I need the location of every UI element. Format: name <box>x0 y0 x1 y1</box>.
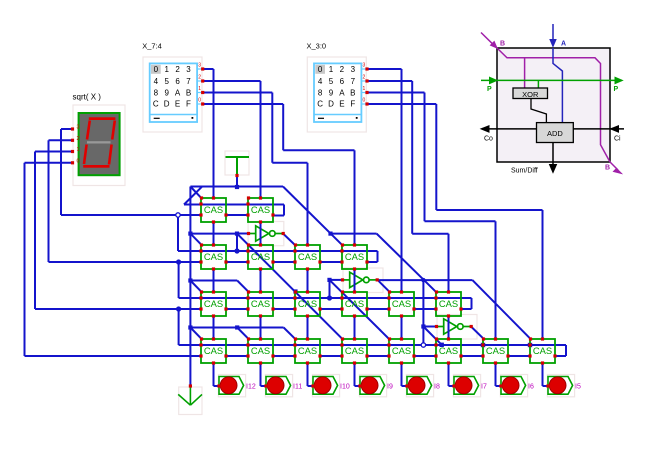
CAS cell row2 c0 <box>201 245 226 269</box>
svg-text:1: 1 <box>198 86 201 92</box>
svg-text:A: A <box>339 88 345 97</box>
wire row2 c1 sum to row3 A <box>260 269 262 292</box>
wire row4 c1-c2 carry link <box>273 355 295 357</box>
wire row4 c6-c7 carry link <box>508 355 530 357</box>
keypad X_3:0 pins <box>361 68 367 70</box>
segment top-left <box>87 121 90 140</box>
wire row3 c0 sum to row4 A <box>213 316 215 339</box>
svg-text:3: 3 <box>363 63 366 69</box>
CAS cell row3 c0 <box>201 292 226 316</box>
junction row3 B-line x329 <box>327 295 332 300</box>
svg-text:ADD: ADD <box>547 129 563 138</box>
inset XOR to ADD path <box>531 99 546 123</box>
svg-text:CAS: CAS <box>298 298 317 309</box>
LED halo I6 <box>500 375 527 397</box>
svg-text:I9: I9 <box>387 383 393 390</box>
7-segment display <box>79 113 120 175</box>
junction new-bit diagonal <box>328 232 332 236</box>
wire branch at diagonal to row3 c5 B <box>331 233 377 235</box>
svg-text:CAS: CAS <box>204 345 223 356</box>
inset B input arrow <box>481 33 495 46</box>
CAS cell row4 c5 <box>436 339 461 363</box>
inset P stub to XOR <box>537 80 539 88</box>
power pin <box>235 174 238 177</box>
wire keypad2 pin2 to row3 c5 A <box>367 80 412 82</box>
svg-text:2: 2 <box>198 75 201 81</box>
wire display pin3 to row1 cell LL <box>61 128 73 130</box>
LED halo I11 <box>265 375 292 397</box>
output LED I9 <box>360 377 385 395</box>
wire inverter U3 output diagonal to row4 c6 B <box>471 327 484 340</box>
keypad X_7:4 divider <box>150 114 197 116</box>
svg-text:A: A <box>175 88 181 97</box>
svg-text:3: 3 <box>351 65 356 74</box>
wire main diagonal J1 to row2c1,row3c2,row4c3 B <box>237 234 343 340</box>
svg-text:XOR: XOR <box>522 90 539 99</box>
junction row4 B-line c5 diag <box>440 343 444 347</box>
keypad X_7:4 dash <box>154 117 160 119</box>
wire row4 c5-c6 carry link <box>461 355 483 357</box>
wire stub to row1 c0 B <box>190 187 201 199</box>
wire branch x178 to row3 B-line <box>178 262 180 298</box>
svg-text:P: P <box>487 86 492 93</box>
wire row3 c0-c1 carry link <box>226 308 248 310</box>
LED halo I10 <box>312 375 339 397</box>
svg-text:3: 3 <box>77 125 80 131</box>
inset Ci arrowhead <box>611 126 619 132</box>
svg-text:CAS: CAS <box>345 251 364 262</box>
wire row3 c5 sum to row4 A <box>448 316 450 339</box>
wire J3 to inverter U3 input <box>423 326 436 328</box>
ground symbol <box>189 386 191 405</box>
svg-text:B: B <box>605 165 610 172</box>
wire row1 c1 sum to row2 A <box>260 222 262 245</box>
wire row3 c4 sum to row4 A <box>401 316 403 339</box>
wire branch x178 row1 feed to row2 B-line <box>177 215 179 251</box>
CAS cell row3 c2 <box>295 292 320 316</box>
inset B path <box>497 48 610 162</box>
inset A input arrow <box>552 24 554 41</box>
wire J2 to inverter U2 input <box>330 279 343 281</box>
svg-text:3: 3 <box>186 65 191 74</box>
svg-text:B: B <box>500 41 505 48</box>
junction row1 feed x178 <box>176 213 180 217</box>
wire row2 c3 sum to row3 A <box>354 269 356 292</box>
wire power to junction <box>236 175 238 187</box>
inset CAS cell diagram box <box>497 48 610 162</box>
svg-text:CAS: CAS <box>392 345 411 356</box>
svg-text:E: E <box>339 100 344 109</box>
inset P right arrowhead <box>615 77 623 83</box>
inverter U1 halo <box>248 222 284 246</box>
junction row4 B-line c6 <box>481 343 485 347</box>
junction D1 at row3 c2 B <box>293 289 297 293</box>
svg-text:I8: I8 <box>434 383 440 390</box>
wire stub to row2 c0 B <box>190 234 201 246</box>
svg-text:CAS: CAS <box>298 251 317 262</box>
junction row2 B-line x237 <box>234 248 239 253</box>
inverter U3 halo <box>437 315 477 340</box>
wire row1 B-line <box>184 204 284 206</box>
inset Co Ci line <box>482 128 537 130</box>
ground symbol halo <box>179 387 202 415</box>
LED halo I8 <box>406 375 433 397</box>
svg-text:CAS: CAS <box>251 298 270 309</box>
wire row1 c0-c1 carry link <box>226 214 248 216</box>
wire power junction right <box>237 186 283 188</box>
wire row4 c3 sum to LED I9 <box>354 363 356 386</box>
inverter U2 body <box>350 272 363 287</box>
svg-text:1: 1 <box>329 65 334 74</box>
wire diagonal to row4 c2 B <box>284 328 296 340</box>
svg-text:I6: I6 <box>528 383 534 390</box>
wire keypad1 pin3 to row1 c0 A <box>203 68 214 70</box>
wire row4 c0-c1 carry link <box>226 355 248 357</box>
junction J3 <box>421 324 425 328</box>
svg-text:5: 5 <box>329 77 334 86</box>
wire keypad2 pin3 to row3 c4 A <box>367 68 402 70</box>
keypad X_7:4 halo <box>143 57 202 132</box>
svg-text:sqrt( X ): sqrt( X ) <box>73 93 102 102</box>
segment top-right <box>112 121 115 140</box>
wire row4 c2-c3 carry link <box>320 355 342 357</box>
output LED I12 <box>219 377 244 395</box>
wire row4 c3-c4 carry link <box>367 355 389 357</box>
svg-text:CAS: CAS <box>204 204 223 215</box>
junction row4 feeder x237 <box>235 325 239 329</box>
inset B output arrow <box>610 162 618 170</box>
wire row4 c7 sum to LED I5 <box>542 363 544 386</box>
wire diagonal B2 new-bit to row2 c3 B <box>283 187 343 246</box>
svg-text:X_3:0: X_3:0 <box>307 41 327 50</box>
junction gnd rail row4 <box>188 325 192 329</box>
svg-text:0: 0 <box>154 65 159 74</box>
CAS cell row3 c1 <box>248 292 273 316</box>
wire inverter U2 output stub to row3 c4 B <box>378 280 390 292</box>
svg-text:I12: I12 <box>246 383 256 390</box>
svg-text:CAS: CAS <box>439 298 458 309</box>
keypad X_7:4 selected cell <box>151 65 161 74</box>
power symbol <box>226 156 250 158</box>
svg-text:CAS: CAS <box>486 345 505 356</box>
wire inverter U1 output stub to row2 c2 B <box>283 234 295 246</box>
CAS cell row4 c4 <box>389 339 414 363</box>
output LED I11 <box>266 377 291 395</box>
wire row2 c2 sum to row3 A <box>307 269 309 292</box>
wire row4 c0 sum to LED I12 <box>213 363 215 386</box>
wire x237 J1 to row2 B-line <box>236 234 238 251</box>
wire J2 vertical to row3 B-line <box>329 280 331 298</box>
wire J1 to inverter U1 input <box>237 233 249 235</box>
wire x423 vertical to row4 B-line <box>422 280 424 345</box>
svg-text:I10: I10 <box>340 383 350 390</box>
svg-text:0: 0 <box>363 98 366 104</box>
wire ground rail vertical <box>189 187 191 387</box>
inset Sum output arrow <box>552 143 554 167</box>
wire overlay row1c1 sum through U1 <box>260 222 262 245</box>
wire row2 c0-c1 carry link <box>226 261 248 263</box>
svg-text:1: 1 <box>77 147 80 153</box>
inverter U2 pins <box>341 278 344 281</box>
svg-text:CAS: CAS <box>251 251 270 262</box>
CAS cell row3 c3 <box>342 292 367 316</box>
svg-text:Ci: Ci <box>614 136 621 143</box>
CAS cell row2 c2 <box>295 245 320 269</box>
keypad X_3:0 dash <box>318 117 324 119</box>
keypad X_3:0 body <box>314 63 361 122</box>
inverter U1 bubble <box>270 231 276 237</box>
segment bottom-right <box>109 145 112 165</box>
wire row2 B-line <box>178 250 378 252</box>
svg-text:CAS: CAS <box>204 251 223 262</box>
wire row3 c1-c2 carry link <box>273 308 295 310</box>
keypad X_3:0 selected cell <box>315 65 325 74</box>
svg-text:6: 6 <box>175 77 180 86</box>
svg-text:X_7:4: X_7:4 <box>142 41 162 50</box>
svg-text:9: 9 <box>329 88 334 97</box>
wire overlay row3c5 sum through U3 <box>448 316 450 339</box>
svg-text:D: D <box>328 100 334 109</box>
CAS cell row3 c5 <box>436 292 461 316</box>
junction row4 B-line x423 <box>421 343 425 347</box>
junction row2 LL x178 <box>176 259 181 264</box>
svg-text:Co: Co <box>484 136 493 143</box>
wire row2 c0 sum to row3 A <box>213 269 215 292</box>
svg-text:B: B <box>350 88 355 97</box>
svg-text:E: E <box>175 100 180 109</box>
wire row4 c1 sum to LED I11 <box>260 363 262 386</box>
svg-text:1: 1 <box>363 86 366 92</box>
keypad X_3:0 divider <box>314 114 361 116</box>
svg-text:CAS: CAS <box>345 345 364 356</box>
inverter U1 body <box>256 226 269 241</box>
LED halo I7 <box>453 375 480 397</box>
wire row2 c1-c2 carry link <box>273 261 295 263</box>
svg-text:0: 0 <box>77 158 80 164</box>
svg-text:I11: I11 <box>293 383 302 390</box>
junction U2 output x423 <box>421 278 425 282</box>
wire keypad2 pin1 to row4 c6 A <box>367 92 425 94</box>
CAS cell row4 c2 <box>295 339 320 363</box>
CAS cell row1 c0 <box>201 198 226 222</box>
svg-text:0: 0 <box>318 65 323 74</box>
wire diagonal to row4 c7 B <box>472 280 530 339</box>
segment bottom-left <box>84 145 87 165</box>
wire diagonal J3 to row4 c5 B <box>423 327 441 345</box>
output LED I6 <box>501 377 526 395</box>
wire row3 c3 sum to row4 A <box>354 316 356 339</box>
CAS cell row2 c1 <box>248 245 273 269</box>
svg-text:1: 1 <box>164 65 169 74</box>
svg-text:2: 2 <box>363 75 366 81</box>
output LED I8 <box>407 377 432 395</box>
LED halo I12 <box>218 375 245 397</box>
junction gnd rail row2 <box>188 232 192 236</box>
wire row4 c6 sum to LED I6 <box>495 363 497 386</box>
junction row4 B-line c7 <box>528 343 532 347</box>
power symbol halo <box>225 151 249 175</box>
ground pin <box>189 384 192 387</box>
wire diagonal to row4 c1 B <box>237 328 249 340</box>
wire row2 c2-c3 carry link <box>320 261 342 263</box>
svg-text:4: 4 <box>318 77 323 86</box>
inverter U3 body <box>444 319 457 334</box>
svg-text:0: 0 <box>198 98 201 104</box>
inverter U2 bubble <box>364 277 370 283</box>
wire row3 c2 sum to row4 A <box>307 316 309 339</box>
wire keypad1 pin0 to row2 c3 A <box>203 103 284 105</box>
wire triangle diagonal <box>184 186 202 204</box>
svg-text:CAS: CAS <box>533 345 552 356</box>
svg-text:F: F <box>186 100 191 109</box>
wire row4 B-line <box>179 344 566 346</box>
CAS cell row4 c6 <box>483 339 508 363</box>
wire row3 c4-c5 carry link <box>414 308 436 310</box>
LED halo I9 <box>359 375 386 397</box>
svg-text:7: 7 <box>351 77 356 86</box>
wire row4 c4 sum to LED I8 <box>401 363 403 386</box>
inverter U2 output leg <box>369 279 377 281</box>
wire row4 c2 sum to LED I10 <box>307 363 309 386</box>
keypad X_7:4 body <box>150 63 197 122</box>
7-segment display halo <box>73 105 125 186</box>
wire diagonal J2 to row3c3,row4c4 B <box>330 280 390 340</box>
svg-text:A: A <box>561 41 566 48</box>
svg-text:8: 8 <box>318 88 323 97</box>
output LED I5 <box>548 377 573 395</box>
wire inverter U2 output horizontal <box>378 279 473 281</box>
segment bottom <box>83 165 109 168</box>
inset B stub to XOR <box>524 58 526 88</box>
inverter U3 output leg <box>463 326 471 328</box>
CAS cell row4 c1 <box>248 339 273 363</box>
svg-text:C: C <box>317 100 323 109</box>
junction J2 <box>327 278 331 282</box>
CAS cell row4 c0 <box>201 339 226 363</box>
svg-text:5: 5 <box>164 77 169 86</box>
wire gnd-rail row3 horizontal <box>190 280 237 282</box>
wire display pin1 to row3 cell LL <box>35 151 73 153</box>
CAS cell row4 c3 <box>342 339 367 363</box>
CAS cell row4 c7 <box>530 339 555 363</box>
wire diagonal to row3 c1 B <box>237 281 249 293</box>
wire stub to row3 c0 B <box>190 281 201 293</box>
svg-text:CAS: CAS <box>251 204 270 215</box>
CAS cell row2 c3 <box>342 245 367 269</box>
svg-text:CAS: CAS <box>298 345 317 356</box>
wire display pin2 to row2 cell LL <box>49 139 73 141</box>
wire row3 c1 sum to row4 A <box>260 316 262 339</box>
wire row3 c2-c3 carry link <box>320 308 342 310</box>
junction power rail <box>235 185 239 189</box>
junction gnd rail row3 <box>188 278 192 282</box>
svg-text:Sum/Diff: Sum/Diff <box>511 168 538 175</box>
wire stub to row4 c0 B <box>190 328 201 340</box>
wire display pin0 to row4 cell LL <box>25 162 73 164</box>
inverter U3 bubble <box>458 324 464 330</box>
output LED I10 <box>313 377 338 395</box>
wire gnd-rail to J1 <box>190 233 237 235</box>
junction J1 <box>235 232 239 236</box>
wire row1 c0 sum to row2 A <box>213 222 215 245</box>
wire row3 c3-c4 carry link <box>367 308 389 310</box>
wire branch x178 to row4 B-line <box>178 309 180 345</box>
svg-text:4: 4 <box>154 77 159 86</box>
LED halo I5 <box>547 375 574 397</box>
wire gnd-rail row4 horizontal <box>190 327 283 329</box>
junction row3 LL x178 <box>176 306 181 311</box>
inverter U3 pins <box>435 325 438 328</box>
segment top <box>89 117 116 120</box>
inverter U1 pins <box>247 232 250 235</box>
svg-text:I5: I5 <box>575 383 581 390</box>
output LED I7 <box>454 377 479 395</box>
svg-text:3: 3 <box>198 63 201 69</box>
svg-text:CAS: CAS <box>204 298 223 309</box>
inverter U1 output leg <box>275 233 283 235</box>
segment middle off <box>87 141 111 143</box>
wire keypad1 pin2 to row1 c1 A <box>203 80 261 82</box>
svg-text:2: 2 <box>175 65 180 74</box>
svg-text:9: 9 <box>164 88 169 97</box>
svg-text:CAS: CAS <box>251 345 270 356</box>
wire keypad1 pin1 to row2 c2 A <box>203 92 273 94</box>
inset ADD box <box>537 123 574 143</box>
svg-text:8: 8 <box>154 88 159 97</box>
inset P line <box>481 79 622 81</box>
wire row3 B-line <box>179 297 472 299</box>
svg-text:C: C <box>153 100 159 109</box>
wire keypad2 pin0 to row4 c7 A <box>367 103 437 105</box>
display pins <box>71 127 74 130</box>
wire power junction left <box>190 186 237 188</box>
svg-text:P: P <box>614 86 619 93</box>
inset Co arrowhead <box>481 126 489 132</box>
svg-text:6: 6 <box>340 77 345 86</box>
keypad X_7:4 pins <box>197 68 203 70</box>
svg-text:7: 7 <box>186 77 191 86</box>
inverter U2 halo <box>343 268 383 293</box>
inset A path <box>553 48 562 123</box>
svg-text:I7: I7 <box>481 383 487 390</box>
wire row4 c5 sum to LED I7 <box>448 363 450 386</box>
svg-text:CAS: CAS <box>392 298 411 309</box>
inset XOR box <box>513 88 548 99</box>
svg-text:2: 2 <box>340 65 345 74</box>
wire overlay row2c3 sum through U2 <box>354 269 356 292</box>
svg-text:B: B <box>186 88 191 97</box>
inset P left arrowhead <box>490 77 498 83</box>
svg-text:CAS: CAS <box>439 345 458 356</box>
CAS cell row3 c4 <box>389 292 414 316</box>
svg-text:CAS: CAS <box>345 298 364 309</box>
svg-text:F: F <box>350 100 355 109</box>
wire row4 c4-c5 carry link <box>414 355 436 357</box>
svg-text:D: D <box>164 100 170 109</box>
CAS cell row1 c1 <box>248 198 273 222</box>
keypad X_3:0 halo <box>307 57 366 132</box>
svg-text:2: 2 <box>77 136 80 142</box>
